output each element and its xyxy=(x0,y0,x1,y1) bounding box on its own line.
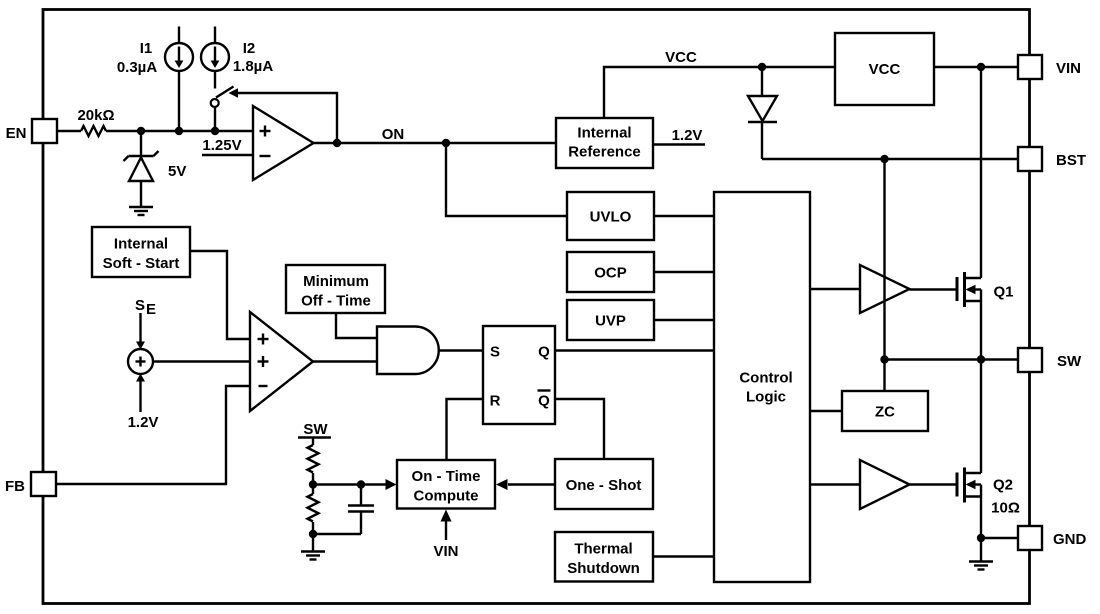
wire driver to Q1 gate xyxy=(910,288,956,290)
label SW of on-time divider xyxy=(298,421,331,438)
svg-text:S: S xyxy=(490,344,500,361)
wire on-time compute to latch R xyxy=(447,399,484,460)
svg-text:Off - Time: Off - Time xyxy=(301,293,371,310)
svg-text:SW: SW xyxy=(303,421,328,438)
svg-text:Control: Control xyxy=(739,370,792,387)
svg-text:E: E xyxy=(146,301,156,318)
wire VIN node down to Q1 drain xyxy=(980,67,982,278)
block Thermal Shutdown xyxy=(555,532,653,582)
block Internal Reference xyxy=(556,118,653,168)
pin SW xyxy=(1018,348,1082,372)
wire Q2 source down to GND node xyxy=(980,485,982,539)
wire divider to on-time compute with cap tap xyxy=(313,483,386,485)
summing node xyxy=(128,349,153,374)
wire OCP to control logic xyxy=(654,271,714,273)
svg-text:I2: I2 xyxy=(243,40,256,57)
ground below zener xyxy=(129,207,153,215)
svg-text:Minimum: Minimum xyxy=(303,273,369,290)
svg-text:FB: FB xyxy=(5,478,25,495)
wire AND output to latch S xyxy=(439,349,483,351)
bootstrap diode xyxy=(748,67,777,159)
1.25V reference label on - input xyxy=(202,137,252,155)
pin EN xyxy=(6,119,57,143)
node dot comparator output xyxy=(333,139,341,147)
switch for I2 xyxy=(211,71,234,131)
high-side gate driver xyxy=(860,265,910,313)
svg-text:VCC: VCC xyxy=(869,61,901,78)
arrow 1.2V into summing node xyxy=(128,374,159,432)
resistor divider upper xyxy=(308,438,319,485)
block Internal Soft-Start xyxy=(92,227,190,277)
node dot EN-divider xyxy=(137,127,145,135)
node dot I2/switch xyxy=(211,127,219,135)
svg-text:S: S xyxy=(135,297,145,314)
node ON xyxy=(442,139,450,147)
pin GND xyxy=(1018,526,1087,550)
svg-text:VIN: VIN xyxy=(433,543,458,560)
wire node to comparator + input xyxy=(106,130,253,132)
wire control logic to ZC xyxy=(810,410,842,412)
1.2V output stub of internal reference xyxy=(653,127,705,145)
svg-text:Thermal: Thermal xyxy=(574,541,632,558)
wire BST rail xyxy=(762,158,1018,160)
wire latch Qbar to one-shot xyxy=(555,399,604,459)
svg-text:10Ω: 10Ω xyxy=(991,500,1020,517)
svg-text:1.2V: 1.2V xyxy=(128,414,159,431)
SR latch xyxy=(483,326,555,424)
ground below divider xyxy=(301,534,325,560)
wire soft-start to error amp + input xyxy=(190,251,250,339)
wire UVLO to control logic xyxy=(654,215,714,217)
svg-text:One - Shot: One - Shot xyxy=(566,477,642,494)
block OCP xyxy=(567,252,654,292)
wire UVP to control logic xyxy=(654,319,714,321)
block ZC xyxy=(842,391,928,431)
svg-text:Internal: Internal xyxy=(114,236,168,253)
svg-text:Q: Q xyxy=(538,393,550,410)
comparator output wire to ON node xyxy=(314,142,557,144)
svg-text:OCP: OCP xyxy=(594,265,627,282)
wire min off-time to AND gate xyxy=(336,313,377,338)
svg-text:I1: I1 xyxy=(140,40,153,57)
node dot divider bottom xyxy=(309,530,317,538)
capacitor xyxy=(313,485,374,535)
node dot VIN branch xyxy=(977,63,985,71)
svg-text:Q1: Q1 xyxy=(993,284,1013,301)
svg-text:1.8µA: 1.8µA xyxy=(233,58,273,75)
resistor 20k xyxy=(77,107,114,136)
node dot BST branch xyxy=(880,155,888,163)
svg-text:SW: SW xyxy=(1057,353,1082,370)
wire ON to UVLO xyxy=(446,143,567,216)
current source I1 0.3uA xyxy=(117,27,193,132)
block VCC regulator xyxy=(835,33,934,105)
arrow SE into summing node xyxy=(136,313,145,350)
switch control arrowhead xyxy=(229,88,239,97)
wire summing node to error amp xyxy=(153,360,250,362)
svg-text:Q: Q xyxy=(538,344,550,361)
EN comparator U1 xyxy=(253,106,314,180)
wire EN pin to resistor xyxy=(57,130,81,132)
svg-text:Internal: Internal xyxy=(577,125,631,142)
pin FB xyxy=(5,472,56,496)
transistor Q2 xyxy=(957,468,1020,517)
arrowhead into on-time compute right xyxy=(496,479,508,490)
svg-text:UVLO: UVLO xyxy=(590,209,632,226)
node dot SW-Q1 xyxy=(977,355,985,363)
error comparator U2 xyxy=(250,312,313,411)
wire VCC rail from internal reference to VCC block xyxy=(604,49,835,118)
svg-text:1.25V: 1.25V xyxy=(202,137,241,154)
ground below Q2 xyxy=(969,538,993,570)
svg-text:20kΩ: 20kΩ xyxy=(77,107,114,124)
zener diode 5V xyxy=(124,131,187,206)
wire driver to Q2 gate xyxy=(910,483,956,485)
svg-text:On - Time: On - Time xyxy=(412,468,481,485)
svg-text:Shutdown: Shutdown xyxy=(567,560,639,577)
node dot capacitor tap xyxy=(357,480,365,488)
wire FB to error amp - input xyxy=(56,386,250,484)
node dot GND xyxy=(977,534,985,542)
svg-text:ON: ON xyxy=(382,126,405,143)
pin BST xyxy=(1018,147,1086,171)
svg-text:ZC: ZC xyxy=(875,404,895,421)
svg-text:VIN: VIN xyxy=(1056,60,1081,77)
AND gate xyxy=(377,327,439,375)
pin VIN xyxy=(1018,55,1081,79)
node dot divider mid xyxy=(309,480,317,488)
feedback wire from comparator output to switch xyxy=(238,93,338,143)
wire control logic to low-side driver xyxy=(810,483,860,485)
svg-text:Logic: Logic xyxy=(746,389,786,406)
block On-Time Compute xyxy=(397,460,495,509)
svg-text:Soft - Start: Soft - Start xyxy=(103,255,180,272)
wire thermal shutdown to control logic xyxy=(653,555,714,557)
block One-Shot xyxy=(555,459,653,509)
svg-text:Q2: Q2 xyxy=(993,477,1013,494)
wire GND node to GND pin xyxy=(981,537,1018,539)
low-side gate driver xyxy=(860,460,910,509)
current source I2 1.8uA xyxy=(201,27,273,76)
node SE label xyxy=(135,297,156,318)
wire error amp output to AND gate xyxy=(313,360,377,362)
block UVLO xyxy=(567,192,654,240)
svg-text:UVP: UVP xyxy=(595,313,626,330)
wire SW rail to SW pin xyxy=(885,358,1019,360)
svg-text:1.2V: 1.2V xyxy=(672,127,703,144)
svg-text:GND: GND xyxy=(1053,531,1087,548)
svg-text:VCC: VCC xyxy=(665,49,697,66)
svg-text:0.3µA: 0.3µA xyxy=(117,59,157,76)
wire VCC block to VIN pin xyxy=(934,66,1018,68)
svg-text:R: R xyxy=(490,393,501,410)
wire SW node down to Q2 drain xyxy=(980,360,982,474)
svg-text:BST: BST xyxy=(1056,152,1086,169)
resistor divider lower xyxy=(308,485,319,535)
block Minimum Off-Time xyxy=(286,265,385,313)
svg-text:5V: 5V xyxy=(168,163,186,180)
svg-text:EN: EN xyxy=(6,125,27,142)
svg-text:Compute: Compute xyxy=(414,488,479,505)
wire Q1 source down to SW node xyxy=(980,290,982,360)
block Control Logic xyxy=(714,192,810,582)
node dot I1 xyxy=(175,127,183,135)
wire one-shot to on-time compute xyxy=(508,483,555,485)
transistor Q1 xyxy=(957,272,1014,307)
wire latch Q to control logic xyxy=(555,349,714,351)
block UVP xyxy=(567,300,654,340)
VIN arrow into on-time compute xyxy=(433,510,458,561)
node dot VCC/diode xyxy=(758,63,766,71)
wire control logic to high-side driver xyxy=(810,288,860,290)
arrowhead into on-time compute left xyxy=(386,479,397,490)
node dot SW-driver branch xyxy=(880,355,888,363)
svg-text:Reference: Reference xyxy=(568,144,641,161)
wire BST node down to ZC through driver xyxy=(883,159,885,391)
